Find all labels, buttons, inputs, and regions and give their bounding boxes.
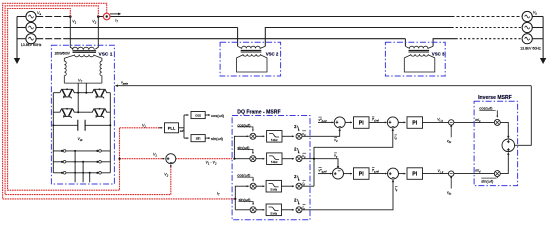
vdc stub bottom	[450, 176, 452, 178]
inv mult bottom	[494, 171, 500, 177]
VSC2 dashed boundary box	[220, 42, 281, 76]
wire phase C solid run to VSC3 tap	[67, 38, 406, 40]
inv mult top	[494, 119, 500, 125]
PI controller 4	[407, 168, 423, 180]
wire id riser to J2	[314, 129, 393, 186]
svg-text:Inverse MSRF: Inverse MSRF	[478, 95, 512, 101]
node dot id riser crossing	[313, 158, 315, 160]
wire secondary shorted loop	[404, 55, 435, 72]
svg-text:cos: cos	[195, 114, 201, 118]
switch row 3	[53, 172, 110, 174]
DQ frame boundary box	[232, 116, 310, 220]
svg-text:+: +	[334, 171, 337, 177]
wire phase A right dashed to source Vb	[452, 16, 523, 18]
AC source Vb phase C	[522, 34, 532, 44]
wire bridge right rail	[109, 93, 111, 173]
wire into sin box	[184, 137, 189, 139]
wire phase C: VSC3 series drop	[404, 39, 406, 47]
arrow IT direction	[110, 13, 118, 15]
IGBT Q2 upper-right	[92, 88, 108, 98]
ground source Vb	[540, 58, 546, 64]
arrowhead iq up into J4	[392, 179, 394, 182]
red wire S1 output to DQ box	[176, 158, 233, 160]
wire sin out	[205, 137, 210, 139]
transformer T1 secondary winding	[74, 55, 94, 57]
capacitor Vdc plates	[78, 120, 85, 131]
IGBT Q3 lower-left	[59, 108, 75, 118]
gate stub row3	[89, 173, 91, 183]
wire phase C: source dashed	[36, 38, 66, 40]
DQ row 1: cos mult, filter, gain	[237, 122, 302, 142]
svg-text:PI: PI	[359, 120, 364, 126]
connector symbols row3	[61, 172, 66, 175]
wire secondary bottom bus	[64, 82, 102, 84]
node dot V1 riser branch	[118, 158, 120, 160]
wire ref vd into J1	[318, 121, 334, 123]
wire secondary shorted loop	[237, 55, 268, 72]
arrow into S1 left	[162, 158, 165, 160]
svg-text:PI: PI	[359, 171, 364, 177]
wire J1 to PI1	[345, 121, 352, 123]
svg-text:−: −	[338, 169, 341, 175]
wire PI3 to J4	[369, 173, 387, 175]
wire Vb stub phase B	[532, 27, 543, 29]
wire V1 drop to transformer	[70, 17, 73, 50]
svg-text:sin(ωt): sin(ωt)	[481, 179, 494, 184]
svg-text:+: +	[507, 147, 510, 153]
svg-text:−: −	[392, 124, 395, 130]
summer J1	[334, 117, 345, 128]
wire PLL out split	[179, 127, 185, 129]
transformer T3 primary winding	[405, 46, 433, 48]
IGBT Q1 upper-left	[59, 88, 75, 98]
wire iq riser to J4	[302, 180, 393, 210]
svg-text:DQ Frame - MSRF: DQ Frame - MSRF	[237, 110, 280, 116]
summer J3	[333, 168, 344, 179]
node dot DQ voltage input	[233, 158, 235, 160]
ground source Va	[14, 58, 20, 64]
transformer T2 secondary winding	[243, 54, 261, 56]
red wire V1 to PLL	[120, 127, 163, 129]
wire source Va bus	[16, 17, 18, 59]
wire bridge mid bus	[53, 111, 110, 113]
svg-text:cos(ωt): cos(ωt)	[211, 113, 225, 118]
wire inv mult top to adder	[500, 122, 508, 136]
wire phase C: VSC3 series return and run	[433, 39, 455, 47]
VSC1 dashed boundary box	[51, 45, 114, 184]
wire secondary right leg with choke	[94, 55, 102, 83]
PLL block	[165, 123, 179, 133]
wire inv mult bottom to adder	[500, 154, 508, 174]
connector symbols row1	[61, 150, 66, 153]
wire DQ current riser	[235, 186, 248, 210]
wire bridge left rail	[52, 93, 54, 173]
connector symbols row2	[61, 161, 66, 164]
svg-text:PI: PI	[412, 120, 417, 126]
vdc stub top	[450, 125, 452, 127]
svg-text:1600/600V: 1600/600V	[55, 51, 71, 55]
wire input row4	[235, 209, 250, 211]
wire into cos box	[184, 114, 189, 116]
wire ref vq into J3	[318, 173, 332, 175]
AC source Vb phase B	[522, 22, 532, 32]
PI controller 1	[354, 117, 370, 129]
red wire V1 loop	[8, 9, 120, 191]
summer J2	[387, 117, 398, 128]
divider circle top	[449, 120, 454, 125]
svg-text:+: +	[507, 140, 510, 146]
arrow into PLL	[159, 127, 163, 129]
wire phase B: VSC2 series return up and solid run	[265, 28, 451, 47]
wire DQ voltage riser	[234, 136, 248, 158]
wire PI1 to J2	[369, 121, 387, 123]
node V1	[69, 15, 72, 18]
node V2	[97, 15, 100, 18]
AC source Va phase B	[26, 22, 36, 32]
arrowhead into adder bottom	[507, 152, 509, 155]
svg-text:sin(ωt): sin(ωt)	[211, 136, 224, 141]
drop cos to mult	[496, 110, 498, 117]
transformer T2 primary winding	[238, 46, 266, 48]
wire Va stub phase B	[17, 27, 26, 29]
PI controller 2	[407, 117, 423, 129]
wire bridge top bus	[53, 92, 110, 94]
wire phase A: source Va to node V1 (dashed)	[36, 16, 70, 18]
wire phase B: source to solid run (dashed at source)	[36, 27, 66, 29]
wire input row2	[234, 158, 250, 160]
arrowhead vd up into J1	[339, 128, 341, 131]
wire dc capacitor leads	[53, 124, 110, 126]
junction dots bridge	[52, 92, 111, 174]
wire source Vb bus	[542, 17, 544, 59]
node dot DQ current input	[234, 198, 236, 200]
svg-text:13.8kV 60Hz: 13.8kV 60Hz	[520, 46, 541, 50]
wire phase B: VSC2 series drop down	[237, 28, 239, 47]
gate stub row2	[82, 162, 84, 183]
transformer T3 secondary winding	[411, 54, 429, 56]
transformer T1 primary winding	[72, 47, 94, 49]
arrowhead vq down into J3	[337, 166, 339, 169]
AC source Vb phase A	[522, 11, 532, 21]
svg-text:VSC 1: VSC 1	[99, 51, 113, 57]
adder circle	[502, 139, 515, 152]
rise sin to mult	[496, 172, 498, 178]
red wire V2 loop	[5, 6, 171, 195]
arrow into S1 bottom	[170, 165, 172, 167]
current sensor IT on phase A	[103, 13, 110, 20]
wire secondary left leg with choke	[64, 55, 74, 83]
switch row 1	[53, 150, 110, 152]
wire adder out and up	[515, 86, 532, 146]
PI controller 3	[354, 168, 370, 180]
wire vd feedback to J1	[302, 130, 340, 136]
wire phase B right dashed to source Vb	[452, 27, 523, 29]
wire Va stub phase C	[17, 38, 26, 40]
transformer T3 core	[409, 50, 430, 52]
wire row3 out to riser	[302, 185, 314, 187]
wire V2 drop to transformer	[95, 17, 98, 50]
Inverse MSRF boundary box	[474, 101, 517, 185]
DQ row 4: sin mult, filter, gain	[239, 197, 303, 216]
summer J4	[388, 168, 399, 179]
svg-text:−: −	[170, 160, 173, 166]
wire phase C right dashed to source Vb	[456, 38, 523, 40]
wire J3 to PI3	[344, 173, 353, 175]
AC source Va phase C	[26, 34, 36, 44]
wire cos out	[205, 114, 210, 116]
IGBT Q4 lower-right	[92, 108, 108, 118]
wire divider to inv mult top	[454, 121, 494, 123]
wire vq row2 out	[302, 159, 338, 167]
svg-text:cos(ωt): cos(ωt)	[479, 106, 493, 111]
wire PI2 to divider	[423, 121, 449, 123]
switch row 2	[53, 161, 110, 163]
wire into mult row1	[247, 135, 249, 137]
wire phase A: node V2 through IT sensor to right	[98, 16, 451, 18]
transformer T2 core	[241, 50, 262, 52]
wire vpwm to VSC1	[117, 85, 531, 87]
arrowhead vpwm into VSC1	[115, 85, 118, 87]
wire PI4 to divider	[423, 173, 449, 175]
svg-text:PI: PI	[412, 171, 417, 177]
wire bridge feed left	[77, 83, 79, 112]
wire Vb stub phase A	[532, 16, 543, 18]
VSC3 dashed boundary box	[385, 42, 445, 76]
sin block	[191, 135, 205, 142]
wire bridge feed right	[85, 83, 87, 93]
wire Va stub phase A	[17, 16, 26, 18]
cos block	[191, 112, 205, 119]
DQ row 2: sin mult, filter, gain	[237, 145, 302, 165]
red wire IT loop: sensor top, across, down left, bottom	[3, 3, 236, 199]
summer S1 circle	[166, 154, 176, 164]
divider circle bottom	[449, 171, 454, 176]
red wire V1 branch to summer S1	[120, 158, 165, 160]
wire J2 to PI2	[398, 121, 405, 123]
wire divider to inv mult bottom	[454, 173, 494, 175]
svg-text:PLL: PLL	[168, 126, 176, 131]
wire into mult row3	[247, 185, 249, 187]
arrowhead into adder top	[507, 136, 509, 139]
transformer T1 core	[73, 51, 97, 53]
svg-text:−: −	[392, 175, 395, 181]
svg-text:13.8kV 60Hz: 13.8kV 60Hz	[21, 43, 42, 47]
arrowhead id up into J2	[392, 128, 394, 131]
wire J4 to PI4	[399, 173, 406, 175]
wire Vb stub phase C	[532, 38, 543, 40]
svg-text:VSC 3: VSC 3	[432, 52, 445, 57]
DQ row 3: cos mult, filter, gain	[237, 173, 302, 192]
AC source Va phase A	[26, 11, 36, 21]
svg-text:sin: sin	[196, 137, 201, 141]
wire phase B solid run to VSC2 tap	[67, 27, 238, 29]
svg-text:−: −	[339, 124, 342, 130]
svg-text:VSC 2: VSC 2	[266, 52, 279, 57]
gate stub row1	[74, 151, 76, 182]
